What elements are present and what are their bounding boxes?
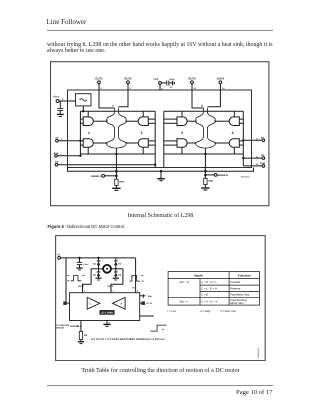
svg-text:SENSE B: SENSE B (217, 174, 228, 177)
bridge A number 1 (88, 130, 90, 134)
bridge B lower rail (164, 111, 244, 154)
footer rule (47, 385, 273, 386)
wire OUT2 to bridge A (119, 90, 129, 107)
bridge B top rail (164, 110, 244, 112)
svg-text:TO CONTROL: TO CONTROL (55, 323, 69, 326)
svg-text:1: 1 (88, 130, 90, 134)
pin Vs (153, 77, 163, 90)
resistor RSB (204, 178, 214, 187)
svg-text:C = L ; D = H: C = L ; D = H (201, 287, 217, 290)
pin In1 (55, 136, 80, 141)
ground rail (68, 167, 254, 171)
wire Ven (139, 294, 152, 298)
label 1/2 L298N (99, 310, 114, 315)
pin In2 (55, 160, 155, 165)
pin EnB (243, 136, 265, 141)
pin EnA (54, 151, 81, 156)
svg-text:Forward: Forward (230, 280, 240, 283)
bridge B input bus left (163, 111, 165, 167)
pin Vs (57, 253, 61, 259)
motor M (91, 264, 123, 272)
table cell C=L D=H (201, 287, 217, 290)
figure code (241, 175, 251, 178)
input D terminal (139, 301, 151, 305)
svg-text:2: 2 (141, 130, 143, 134)
ground at D4 (112, 278, 118, 280)
svg-text:100nF: 100nF (83, 263, 89, 266)
table cell motor stop (230, 302, 244, 305)
bridge A number 2 (141, 130, 143, 134)
svg-text:OUT2: OUT2 (107, 285, 114, 288)
diode D2 (113, 257, 121, 268)
table cell C=H D=L (201, 280, 217, 283)
svg-text:D95IN216A: D95IN216A (257, 346, 260, 357)
gate B3 (216, 116, 244, 125)
wire OUT4 to bridge B (208, 90, 221, 107)
svg-text:1/2 L298N: 1/2 L298N (100, 311, 112, 314)
bridge A input bus right (155, 111, 156, 167)
pin OUT3 (188, 76, 197, 90)
diode D1 (93, 257, 100, 268)
bridge B input bus right (243, 111, 244, 166)
svg-text:D1: D1 (93, 262, 97, 265)
svg-text:Fast Motor Stop: Fast Motor Stop (230, 293, 250, 296)
svg-text:+Vs: +Vs (153, 77, 158, 81)
gate B1 (164, 116, 196, 125)
svg-text:RSB: RSB (208, 179, 213, 182)
pin SENSE A (91, 174, 117, 177)
wire OUT3 to bridge B (192, 90, 203, 108)
diode D4 (113, 268, 121, 277)
note diodes (91, 338, 164, 341)
node A label (112, 104, 114, 107)
svg-text:D1 TO D4 = 2 A FAST RECOVERY D: D1 TO D4 = 2 A FAST RECOVERY DIODES (trr… (91, 338, 164, 341)
svg-text:4: 4 (232, 130, 234, 134)
ground GND pin (157, 170, 164, 180)
table header inputs (194, 273, 203, 277)
caption 2 (47, 368, 274, 374)
gate B4 (216, 138, 243, 147)
figure 2 frame (55, 235, 265, 360)
svg-text:B: B (201, 104, 203, 107)
ground at RS (77, 341, 83, 343)
svg-text:C = H ; D = L: C = H ; D = L (201, 280, 217, 283)
svg-text:+Vss: +Vss (53, 95, 60, 98)
svg-text:OUT1: OUT1 (78, 285, 85, 288)
capacitor C100n (76, 257, 89, 267)
bridge B power stage (195, 107, 217, 147)
svg-text:OUT4: OUT4 (217, 76, 225, 80)
svg-text:Reverse: Reverse (230, 287, 241, 290)
svg-text:OUT1: OUT1 (95, 76, 103, 80)
figure code vertical (257, 346, 260, 357)
FIGURE 1 : internal schematic of L298 (50, 61, 270, 207)
pin OUT1 (95, 76, 103, 90)
supply rail (60, 257, 135, 258)
svg-text:≤V: ≤V (170, 86, 173, 89)
node B label (201, 104, 203, 107)
svg-text:3: 3 (181, 130, 183, 134)
FIGURE 2 : bidirectional DC motor control (55, 235, 266, 361)
pin In4 (243, 161, 265, 166)
table cell reverse (230, 287, 241, 290)
svg-text:4: 4 (136, 289, 138, 292)
table cell fast motor stop (230, 293, 250, 296)
wire Is (139, 315, 153, 317)
svg-text:RS: RS (83, 334, 87, 337)
IC U1 body (68, 90, 252, 168)
svg-text:4: 4 (120, 302, 122, 305)
waveform C (67, 275, 84, 280)
bridge A top rail (80, 110, 155, 111)
svg-text:SENSE A: SENSE A (91, 174, 102, 177)
svg-text:D4: D4 (118, 273, 122, 276)
wire bridge A to sense A (116, 148, 118, 179)
ground at D3 (95, 278, 101, 280)
regulator block U2 (76, 93, 92, 111)
wire bridge B to sense B (205, 148, 207, 178)
capacitor C2 at Vss (57, 101, 63, 114)
svg-text:1: 1 (89, 302, 91, 305)
amplifier A1 (87, 297, 100, 309)
svg-text:C = X ; D = X: C = X ; D = X (201, 300, 217, 303)
truth table (168, 271, 259, 305)
ground at C100n (76, 268, 82, 270)
svg-text:RSA: RSA (119, 180, 124, 183)
gate A1 (80, 116, 106, 125)
table cell Ven=L (179, 300, 189, 303)
svg-text:Ven = L: Ven = L (179, 300, 189, 303)
svg-text:L = Low: L = Low (167, 310, 176, 313)
wire OUT2 loop (107, 268, 122, 292)
ground at C2 (57, 114, 64, 116)
table header function (237, 273, 250, 277)
svg-text:100nF: 100nF (169, 77, 176, 80)
svg-text:D2: D2 (118, 262, 122, 265)
resistor RSA (115, 179, 125, 188)
svg-text:In2: In2 (55, 160, 59, 163)
pin +Vss (53, 95, 76, 102)
svg-text:OUT2: OUT2 (124, 76, 132, 80)
caption 1 (47, 213, 274, 219)
svg-text:D95IN216: D95IN216 (241, 175, 251, 178)
waveform Ven (150, 325, 166, 331)
ground at RSA (112, 188, 120, 190)
resistor RS (79, 320, 87, 341)
gate A4 (127, 138, 155, 147)
svg-text:A: A (112, 104, 114, 107)
gate B2 (164, 138, 195, 147)
header title (47, 18, 87, 26)
svg-text:OUT3: OUT3 (188, 76, 196, 80)
input C terminal (63, 257, 69, 304)
wire OUT1 loop (78, 268, 91, 292)
ground GND pin 8 (103, 320, 110, 326)
svg-text:In1: In1 (55, 136, 59, 139)
bridge B number 3 (181, 130, 183, 134)
waveform D (129, 275, 143, 280)
svg-text:EnB: EnB (260, 161, 265, 164)
svg-text:Function: Function (237, 273, 250, 277)
svg-text:Vs: Vs (132, 286, 135, 289)
diode D3 (93, 268, 100, 277)
svg-text:EnA: EnA (54, 151, 59, 154)
svg-text:H = High: H = High (200, 310, 210, 313)
bridge A input bus left (80, 111, 81, 156)
IC U3 1/2 L298N (69, 292, 139, 320)
table cell C=D (201, 293, 208, 296)
pin OUT2 (124, 76, 132, 90)
body paragraph (47, 43, 273, 55)
svg-text:Ven: Ven (147, 295, 152, 298)
svg-text:Vs: Vs (57, 253, 61, 256)
ground at RSB (201, 188, 209, 190)
pin OUT4 (217, 76, 226, 90)
svg-text:X = Don't care: X = Don't care (220, 310, 236, 313)
table footnote (167, 310, 236, 313)
table cell free running (230, 298, 247, 301)
wire OUT1 to bridge A (99, 90, 114, 108)
gate A2 (80, 138, 106, 147)
figure 1 frame (51, 61, 269, 205)
svg-text:Ven = H: Ven = H (179, 280, 189, 283)
table cell C=X D=X (201, 300, 217, 303)
svg-text:C = D: C = D (201, 293, 208, 296)
pin SENSE B (205, 173, 229, 177)
gate A3 (127, 116, 156, 125)
svg-text:Motor Stop: Motor Stop (230, 302, 244, 305)
page number (47, 389, 273, 396)
figure 6 label (48, 224, 126, 229)
capacitor C1 at Vs (161, 77, 175, 88)
label to control circuit (55, 323, 79, 329)
table cell Ven=H (179, 280, 189, 283)
bridge A lower rail (80, 111, 155, 154)
svg-text:CIRCUIT: CIRCUIT (55, 326, 64, 329)
bridge A power stage (106, 107, 128, 147)
pin In3 (243, 154, 265, 159)
wire Vs pin 4 (132, 257, 139, 292)
header rule (47, 30, 273, 31)
svg-text:D3: D3 (93, 273, 97, 276)
bridge B number 4 (232, 130, 234, 134)
amplifier A2 (112, 297, 125, 309)
table cell forward (230, 280, 240, 283)
svg-text:Inputs: Inputs (194, 273, 203, 277)
